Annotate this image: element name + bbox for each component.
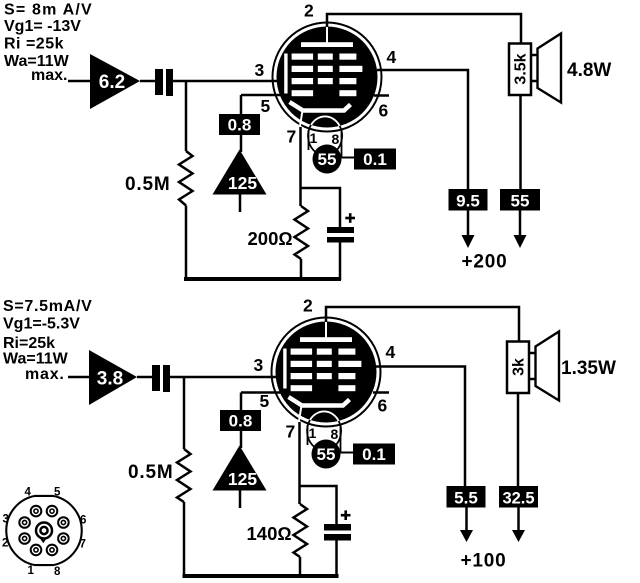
wire pin 2 top [327, 14, 521, 44]
socket pin 6 [58, 517, 69, 528]
wire triangle to capacitor bottom [137, 376, 153, 379]
svg-text:3.5k: 3.5k [513, 53, 530, 84]
svg-text:140Ω: 140Ω [247, 523, 292, 544]
svg-text:0.8: 0.8 [229, 412, 253, 431]
svg-text:4.8W: 4.8W [567, 60, 611, 81]
svg-text:3: 3 [3, 514, 9, 526]
arrow anode supply bottom [465, 508, 468, 533]
socket outline [6, 496, 81, 565]
value box 0.8 [219, 114, 260, 135]
wire pin 4 bottom [376, 367, 465, 487]
value box 0.8 bottom [220, 410, 261, 431]
svg-text:3k: 3k [511, 358, 528, 376]
wire pin5 down to box [240, 95, 243, 115]
resistor 200 ohm [295, 206, 309, 259]
stub below triangle bottom [239, 491, 242, 509]
socket pin 7 [58, 533, 69, 544]
svg-text:0.8: 0.8 [228, 116, 252, 135]
wire box to triangle [240, 135, 243, 152]
socket pin 2 [19, 533, 30, 544]
wire cap to rail [339, 242, 342, 280]
wire resistor to bottom rail bottom [183, 502, 186, 576]
svg-text:S= 8m A/V: S= 8m A/V [4, 2, 93, 19]
wire transformer down [519, 95, 522, 189]
wire triangle to capacitor [140, 80, 156, 83]
wire capacitor to tube pin 3 bottom [170, 376, 278, 379]
wire pin 5 [241, 94, 281, 97]
voltage triangle 125 [213, 150, 267, 195]
electrolytic capacitor plus bottom [341, 510, 351, 520]
value box 9.5 [449, 189, 488, 211]
svg-text:max.: max. [25, 366, 65, 383]
wire grid branch down bottom [183, 377, 186, 449]
svg-text:55: 55 [511, 192, 530, 211]
wire resistor to bottom rail [185, 206, 188, 280]
svg-text:S=7.5mA/V: S=7.5mA/V [3, 298, 92, 315]
socket center key [36, 523, 52, 542]
svg-text:6.2: 6.2 [99, 72, 125, 93]
socket pin 8 [47, 545, 58, 556]
wire pin5 down to box bottom [240, 393, 243, 412]
svg-text:Vg1=-5.3V: Vg1=-5.3V [3, 316, 80, 333]
svg-text:1.35W: 1.35W [561, 358, 616, 379]
svg-text:32.5: 32.5 [502, 490, 534, 508]
svg-text:0.5M: 0.5M [125, 174, 170, 195]
value box 32.5 [499, 486, 538, 508]
wire input [68, 80, 91, 83]
speaker SP1 [509, 34, 561, 103]
arrow screen supply bottom [517, 508, 520, 533]
arrow screen supply [519, 211, 522, 238]
speaker SP2 [507, 332, 559, 401]
svg-text:4: 4 [25, 487, 32, 499]
wire cap to rail bottom [335, 540, 338, 577]
svg-text:125: 125 [228, 173, 257, 193]
svg-text:Vg1= -13V: Vg1= -13V [4, 18, 81, 35]
capacitor coupling bottom [152, 365, 160, 391]
svg-text:125: 125 [228, 469, 257, 489]
svg-text:6: 6 [80, 515, 86, 527]
voltage triangle 125 bottom [213, 446, 267, 491]
svg-text:5: 5 [54, 487, 61, 499]
svg-text:8: 8 [54, 566, 61, 578]
svg-text:200Ω: 200Ω [248, 228, 293, 249]
resistor 0.5M [179, 151, 193, 206]
value box 5.5 [447, 486, 486, 508]
value box 55 [500, 189, 540, 211]
wire cathode branch [301, 188, 340, 228]
wire pin 4 [377, 70, 468, 189]
wire box to triangle bottom [240, 431, 243, 448]
svg-text:7: 7 [80, 539, 86, 551]
wire resistor to rail [300, 259, 303, 279]
svg-text:Ri =25k: Ri =25k [4, 36, 64, 53]
bottom rail wire [184, 277, 341, 281]
wire pin 5 bottom [241, 391, 281, 394]
wire cathode branch bottom [300, 486, 337, 524]
wire pin 2 top bottom circuit [326, 307, 519, 343]
resistor 0.5M bottom [177, 449, 191, 502]
arrow anode supply [467, 211, 470, 238]
svg-text:Wa=11W: Wa=11W [3, 351, 69, 368]
tube V1 [255, 1, 397, 174]
electrolytic capacitor plus [345, 213, 355, 223]
socket pin 4 [31, 506, 42, 517]
wire pin 6 stub [374, 94, 389, 97]
capacitor coupling [155, 69, 163, 95]
svg-text:Ri=25k: Ri=25k [3, 335, 55, 352]
input level triangle 6.2 [90, 54, 140, 109]
svg-text:2: 2 [2, 538, 8, 550]
wire capacitor to tube pin 3 [173, 80, 279, 83]
wire pin 6 stub bottom [373, 391, 389, 394]
input level triangle 3.8 [89, 350, 137, 405]
resistor 140 ohm [294, 504, 308, 557]
svg-text:1: 1 [28, 565, 35, 577]
svg-text:max.: max. [31, 67, 67, 84]
socket pin 3 [19, 517, 30, 528]
svg-text:+100: +100 [461, 551, 507, 572]
svg-text:5.5: 5.5 [454, 489, 478, 508]
bottom rail wire bottom [183, 574, 339, 578]
svg-text:9.5: 9.5 [456, 192, 480, 211]
svg-text:3.8: 3.8 [97, 369, 123, 390]
socket pin 5 [47, 506, 58, 517]
electrolytic capacitor [327, 227, 354, 233]
socket pin 1 [31, 545, 42, 556]
wire resistor to rail bottom [299, 557, 302, 576]
wire pin 7 down [299, 127, 302, 206]
wire grid branch down [185, 81, 188, 151]
tube V2 [254, 296, 396, 469]
stub below triangle [239, 195, 242, 213]
electrolytic capacitor bottom [324, 524, 351, 531]
svg-text:0.5M: 0.5M [128, 462, 173, 483]
svg-text:+200: +200 [462, 252, 508, 273]
wire transformer down bottom [517, 393, 520, 486]
wire pin 7 down bottom [298, 422, 301, 504]
wire input bottom [68, 376, 90, 379]
